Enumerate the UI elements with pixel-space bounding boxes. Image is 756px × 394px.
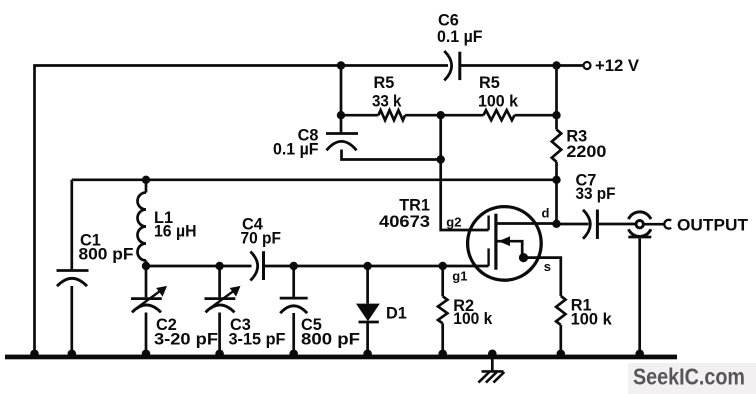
svg-text:s: s	[544, 259, 551, 274]
svg-text:2200: 2200	[566, 143, 606, 161]
svg-text:OUTPUT: OUTPUT	[677, 217, 748, 235]
svg-text:800 pF: 800 pF	[79, 246, 134, 264]
svg-text:0.1 µF: 0.1 µF	[273, 141, 319, 159]
svg-text:g1: g1	[452, 268, 467, 283]
svg-text:100 k: 100 k	[453, 310, 493, 328]
svg-text:g2: g2	[446, 214, 461, 229]
svg-text:R5: R5	[479, 74, 500, 92]
svg-text:100 k: 100 k	[571, 311, 613, 329]
svg-text:SeekIC.com: SeekIC.com	[633, 364, 745, 390]
svg-text:33 k: 33 k	[372, 92, 402, 110]
svg-text:3-15 pF: 3-15 pF	[229, 331, 286, 349]
svg-text:70 pF: 70 pF	[241, 229, 282, 247]
svg-text:800 pF: 800 pF	[301, 331, 360, 349]
svg-text:C6: C6	[438, 11, 459, 29]
svg-text:+12 V: +12 V	[595, 57, 639, 75]
svg-text:0.1 µF: 0.1 µF	[437, 28, 483, 46]
svg-text:3-20 pF: 3-20 pF	[154, 331, 218, 349]
svg-text:33 pF: 33 pF	[576, 185, 616, 203]
svg-text:TR1: TR1	[399, 196, 430, 214]
svg-text:40673: 40673	[379, 213, 430, 231]
svg-text:d: d	[542, 206, 550, 221]
svg-text:100 k: 100 k	[478, 93, 519, 111]
svg-text:D1: D1	[386, 304, 407, 322]
svg-text:R5: R5	[374, 74, 395, 92]
svg-text:16 µH: 16 µH	[154, 223, 197, 241]
